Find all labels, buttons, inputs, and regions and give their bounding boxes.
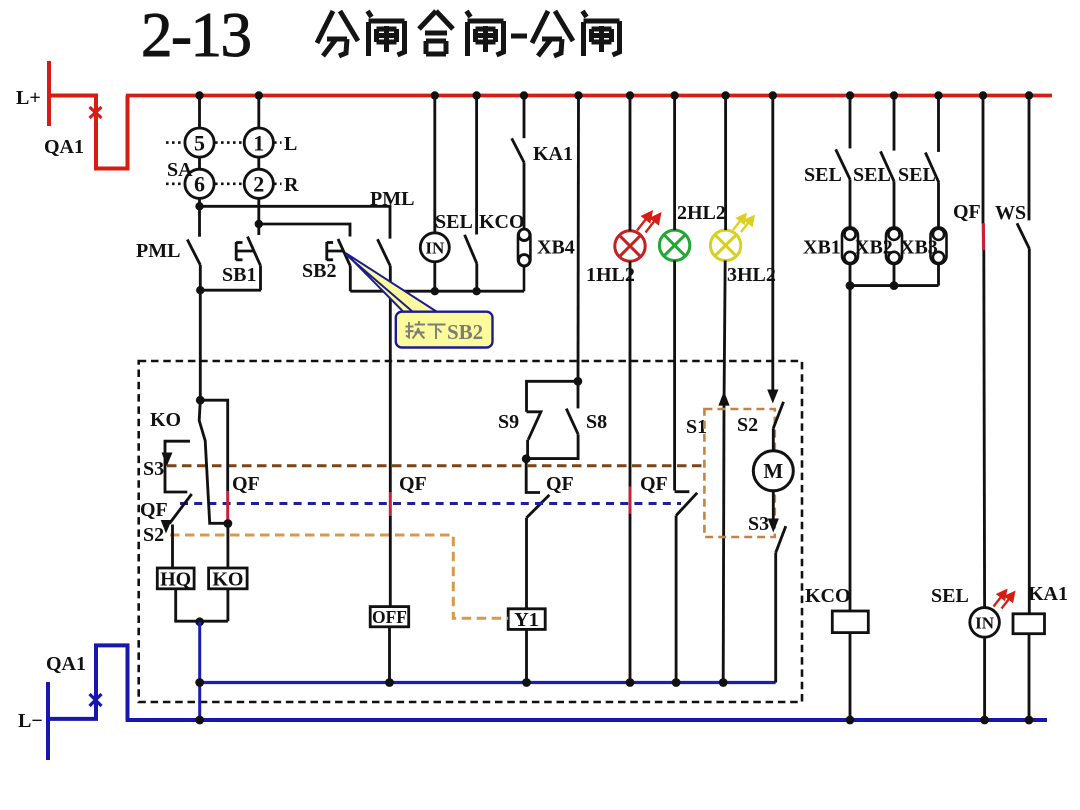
svg-text:QF: QF: [640, 473, 668, 495]
lamp IN (SEL): [420, 96, 449, 292]
svg-text:IN: IN: [425, 239, 445, 258]
wire S9S8 column upper: [577, 96, 580, 382]
svg-text:SA: SA: [167, 159, 193, 181]
title chinese 分闸合闸-分闸: [317, 11, 620, 56]
svg-text:XB4: XB4: [537, 237, 575, 259]
contact QF (2HL2): [675, 96, 698, 683]
node below SA-6: [195, 202, 203, 210]
wire KCO column: [849, 286, 852, 720]
svg-text:KA1: KA1: [1028, 583, 1068, 605]
wire KO coil top: [226, 524, 229, 569]
contact S3: [776, 526, 786, 682]
wire PML1-SB1 bottom: [200, 289, 261, 292]
node XB2 join: [890, 281, 899, 290]
svg-text:L+: L+: [16, 87, 41, 109]
node 2HL2 rail: [672, 678, 681, 687]
svg-text:L−: L−: [18, 710, 43, 732]
svg-text:L: L: [284, 133, 297, 155]
svg-text:5: 5: [194, 131, 205, 156]
fuse link XB4: [518, 229, 530, 291]
lamp 3HL2 yellow: [710, 230, 740, 260]
dashed control box: [139, 361, 802, 702]
lamp 1HL2 red: [615, 231, 645, 261]
motor M: [753, 451, 793, 491]
svg-text:SEL: SEL: [931, 585, 969, 607]
svg-text:R: R: [284, 174, 299, 196]
contact S2: [773, 402, 783, 451]
svg-text:PML: PML: [370, 188, 414, 210]
svg-text:SEL: SEL: [898, 164, 936, 186]
node above KO coil: [224, 519, 233, 528]
wire 1HL2 column: [629, 96, 632, 683]
QF closed segment red (right): [982, 223, 985, 250]
linkage dashed orange S2-Y1: [170, 535, 508, 618]
svg-text:IN: IN: [975, 614, 995, 633]
svg-text:PML: PML: [136, 240, 180, 262]
L+ red bus: [126, 94, 1052, 98]
wire S9 branch top: [527, 381, 578, 412]
contact QF (HQ branch): [170, 494, 192, 568]
pushbutton SB1: [236, 224, 260, 290]
wire S1 column: [723, 96, 725, 683]
L- blue bus: [126, 718, 1047, 722]
contact S8: [526, 381, 578, 458]
svg-text:S2: S2: [143, 524, 164, 546]
svg-text:QF: QF: [953, 201, 981, 223]
wires below HQ KO: [174, 589, 228, 621]
lamp 2HL2 green: [659, 230, 689, 260]
wires XB join: [850, 264, 939, 286]
node KA1 rail: [1025, 716, 1034, 725]
wire QF-IN column: [983, 96, 985, 721]
QA1 break mark X: [90, 107, 102, 118]
node L- QA1: [195, 716, 204, 725]
svg-text:2: 2: [253, 172, 264, 197]
contact SEL: [465, 96, 477, 292]
svg-text:Y1: Y1: [514, 609, 538, 631]
QA1 bottom step: [48, 645, 128, 720]
contact KO: [199, 400, 226, 523]
inner blue rail: [200, 681, 776, 684]
svg-text:KA1: KA1: [533, 143, 573, 165]
node KCO rail: [846, 716, 855, 725]
node rail left: [195, 678, 204, 687]
callout pointer 按下SB2: [346, 253, 439, 313]
contact SEL2: [881, 96, 895, 228]
svg-text:KO: KO: [212, 569, 243, 591]
frame brown dashed (motor linkage): [704, 409, 774, 537]
title 2-13: [141, 0, 250, 70]
wire SB2-XB4 bottom row: [350, 290, 524, 293]
node S9S8 top: [574, 377, 583, 386]
svg-text:OFF: OFF: [372, 607, 407, 627]
svg-text:KCO: KCO: [805, 585, 851, 607]
wire OFF column: [388, 361, 392, 683]
contact QF (Y1 branch): [526, 459, 549, 609]
fuse link XB2: [886, 227, 902, 264]
callout text 按下SB2: [406, 321, 446, 339]
linkage dashed blue QF: [180, 502, 681, 505]
svg-text:S3: S3: [748, 513, 769, 535]
S3 arrow: [162, 453, 173, 467]
bus junction dots L+: [195, 91, 1033, 99]
node 1HL2 rail: [626, 678, 635, 687]
wire PML1 down into box: [199, 290, 202, 400]
callout box: [396, 312, 493, 348]
svg-text:2-13: 2-13: [141, 0, 250, 70]
coil Y1: [508, 609, 545, 683]
node S9S8 bottom: [522, 454, 531, 463]
node KO branch: [196, 396, 205, 405]
QF closed segment red (OFF branch): [389, 492, 392, 517]
fuse link XB1: [842, 227, 858, 264]
S1 up arrow: [718, 391, 729, 406]
node below SA-2: [255, 220, 263, 228]
svg-text:S8: S8: [586, 411, 607, 433]
svg-text:XB3: XB3: [900, 237, 938, 259]
3HL2 arrows yellow: [733, 215, 754, 233]
node XB1 join: [846, 281, 855, 290]
svg-text:KCO: KCO: [479, 211, 525, 233]
wire below motor: [772, 491, 775, 525]
SA contact numbers: [194, 131, 264, 197]
QF closed segment red (KO branch): [226, 491, 229, 523]
pushbutton SB2: [327, 239, 351, 291]
svg-text:SEL: SEL: [435, 211, 473, 233]
S3 selector bracket: [165, 441, 190, 492]
L+ terminal stub: [47, 61, 51, 126]
svg-text:SB2: SB2: [447, 320, 483, 344]
svg-text:QF: QF: [140, 499, 168, 521]
coil KA1: [1013, 614, 1045, 720]
coil OFF: [370, 607, 409, 627]
SA dotted linkage lines: [166, 143, 282, 184]
svg-text:QA1: QA1: [46, 653, 86, 675]
node SEL bottom: [472, 287, 480, 295]
QA1 red step: [49, 96, 128, 169]
IN arrows red: [994, 591, 1015, 609]
svg-text:WS: WS: [995, 202, 1026, 224]
wire row1 to PML2: [200, 206, 391, 238]
svg-text:QA1: QA1: [44, 136, 84, 158]
contact SEL1: [836, 96, 851, 228]
S3 down arrow: [768, 519, 779, 533]
fuse link XB3: [931, 227, 947, 264]
node PML1 bottom: [196, 286, 204, 294]
coil KCO: [832, 611, 868, 633]
contact WS: [1017, 96, 1030, 614]
svg-text:S3: S3: [143, 458, 164, 480]
svg-text:1: 1: [253, 131, 264, 156]
node HQKO join: [195, 617, 204, 626]
svg-text:1HL2: 1HL2: [586, 264, 635, 286]
coil KO: [209, 568, 248, 591]
node S1 rail: [719, 678, 728, 687]
svg-text:2HL2: 2HL2: [677, 202, 726, 224]
svg-text:QF: QF: [399, 473, 427, 495]
contact PML1: [187, 206, 200, 290]
svg-text:6: 6: [194, 172, 205, 197]
S2 arrow: [161, 520, 172, 534]
svg-text:SEL: SEL: [853, 164, 891, 186]
svg-text:SB2: SB2: [302, 260, 336, 282]
svg-text:XB2: XB2: [855, 237, 893, 259]
node Y1 rail: [522, 678, 531, 687]
contact KA1 top: [512, 96, 524, 231]
svg-text:KO: KO: [150, 409, 181, 431]
QA1 bottom break mark X: [90, 692, 102, 708]
svg-text:S2: S2: [737, 414, 758, 436]
node OFF rail: [385, 678, 394, 687]
svg-text:QF: QF: [232, 473, 260, 495]
linkage dashed brown S3: [167, 464, 704, 467]
contact S9: [527, 412, 541, 460]
S2 down arrow: [767, 390, 778, 404]
svg-text:S9: S9: [498, 411, 519, 433]
svg-text:XB1: XB1: [803, 237, 841, 259]
svg-text:QF: QF: [546, 473, 574, 495]
svg-text:M: M: [763, 459, 783, 483]
svg-text:3HL2: 3HL2: [727, 264, 776, 286]
1HL2 arrows: [637, 212, 660, 233]
svg-text:HQ: HQ: [160, 569, 191, 591]
coil HQ: [157, 568, 194, 591]
contact SEL3: [925, 96, 938, 228]
wire blue drop to rail and L-: [198, 622, 201, 720]
lamp IN bottom: [970, 608, 1000, 638]
wire row2 to SB2: [259, 224, 350, 237]
wire S2 column top: [771, 96, 774, 397]
svg-text:SB1: SB1: [222, 264, 256, 286]
node IN bottom: [431, 287, 439, 295]
L- terminal stub: [46, 682, 50, 760]
wire branch to QF line: [200, 400, 227, 491]
node IN rail: [980, 716, 989, 725]
QF closed segment red (1HL2): [629, 487, 632, 514]
svg-text:SEL: SEL: [804, 164, 842, 186]
contact PML2: [378, 239, 391, 361]
SA selector switch: [185, 96, 274, 225]
